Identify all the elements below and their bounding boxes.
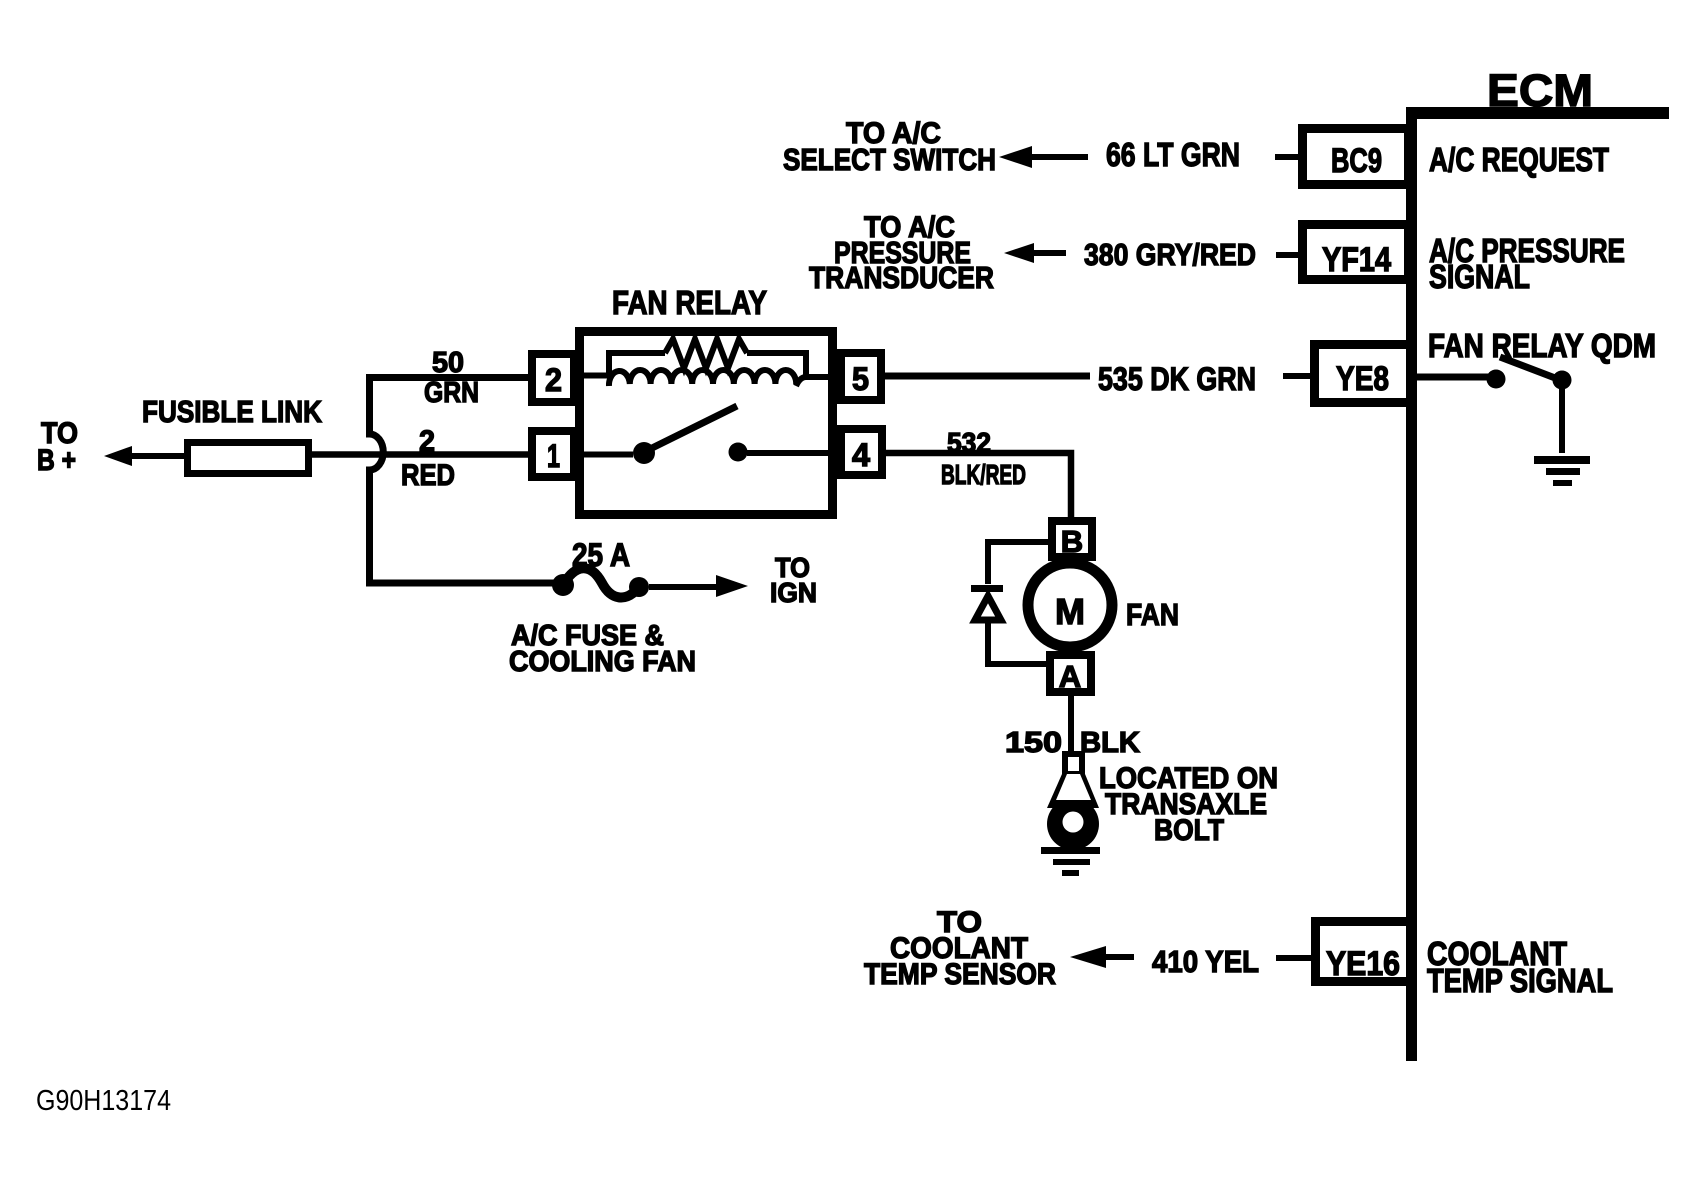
label FAN xyxy=(1126,597,1179,632)
label A/C PRESSURE SIGNAL xyxy=(1429,232,1625,295)
svg-text:YF14: YF14 xyxy=(1322,241,1391,279)
wire label 66 LT GRN xyxy=(1106,136,1240,173)
svg-text:BOLT: BOLT xyxy=(1154,814,1224,847)
label TO B+ xyxy=(37,417,78,477)
connector YE8 xyxy=(1315,345,1411,403)
relay switch wire from pin 1 xyxy=(578,452,633,458)
relay resistor right lead xyxy=(747,353,806,376)
svg-text:TEMP SIGNAL: TEMP SIGNAL xyxy=(1427,962,1613,999)
wire label 2 RED xyxy=(401,425,455,492)
svg-text:FUSIBLE LINK: FUSIBLE LINK xyxy=(142,394,323,429)
svg-text:TEMP SENSOR: TEMP SENSOR xyxy=(864,958,1056,991)
wire label 150 BLK xyxy=(1005,727,1140,759)
svg-text:G90H13174: G90H13174 xyxy=(36,1085,171,1117)
label TO IGN xyxy=(770,552,817,608)
svg-text:COOLING FAN: COOLING FAN xyxy=(509,646,696,678)
label FUSIBLE LINK xyxy=(142,394,323,429)
QDM switch arm xyxy=(1500,357,1563,381)
wire stub into YE8 xyxy=(1283,373,1315,379)
svg-text:IGN: IGN xyxy=(770,577,817,608)
svg-text:FAN: FAN xyxy=(1126,597,1179,632)
svg-text:YE16: YE16 xyxy=(1326,945,1400,983)
relay pin 1 xyxy=(532,431,574,477)
arrow to coolant temp sensor xyxy=(1070,946,1134,968)
ECM label xyxy=(1487,65,1593,116)
svg-text:SELECT SWITCH: SELECT SWITCH xyxy=(783,142,996,177)
svg-text:150: 150 xyxy=(1005,727,1062,759)
svg-text:BC9: BC9 xyxy=(1331,142,1382,180)
arrow to B+ xyxy=(104,446,188,466)
svg-text:A/C REQUEST: A/C REQUEST xyxy=(1429,141,1609,178)
relay resistor (parallel) xyxy=(665,339,747,368)
wire switch to ground xyxy=(1559,381,1565,453)
fan connector A xyxy=(1050,655,1091,694)
wire label 532 BLK/RED xyxy=(941,427,1026,490)
svg-text:50: 50 xyxy=(432,347,464,379)
relay pin 5 xyxy=(841,353,881,400)
svg-text:A: A xyxy=(1059,659,1081,694)
fuse 25A element xyxy=(552,568,649,597)
label TO COOLANT TEMP SENSOR xyxy=(864,906,1056,991)
figure ID G90H13174 xyxy=(36,1085,171,1117)
svg-text:M: M xyxy=(1055,591,1085,632)
svg-text:FAN RELAY: FAN RELAY xyxy=(612,284,767,321)
wire label 380 GRY/RED xyxy=(1084,237,1256,272)
wire label 410 YEL xyxy=(1152,944,1259,979)
svg-text:4: 4 xyxy=(852,437,870,473)
svg-text:TRANSDUCER: TRANSDUCER xyxy=(809,260,994,295)
svg-text:535 DK GRN: 535 DK GRN xyxy=(1098,361,1256,397)
svg-text:2: 2 xyxy=(419,425,435,458)
svg-text:BLK: BLK xyxy=(1080,727,1140,759)
svg-text:BLK/RED: BLK/RED xyxy=(941,459,1026,490)
relay coil wire stub from pin 2 xyxy=(578,353,665,376)
ECM top boundary line xyxy=(1408,107,1669,119)
connector YF14 xyxy=(1303,225,1409,280)
diode xyxy=(971,585,1003,620)
fusible link xyxy=(188,443,309,474)
QDM switch contact dot right xyxy=(1553,371,1572,390)
svg-text:FAN RELAY QDM: FAN RELAY QDM xyxy=(1428,327,1656,364)
relay pin 2 xyxy=(532,354,574,402)
svg-text:410 YEL: 410 YEL xyxy=(1152,944,1259,979)
arrow to A/C pressure transducer xyxy=(1004,243,1066,263)
label FAN RELAY xyxy=(612,284,767,321)
svg-text:1: 1 xyxy=(547,438,560,474)
diode branch top wire xyxy=(988,542,1048,584)
svg-text:B +: B + xyxy=(37,444,76,477)
ECM vertical boundary line xyxy=(1406,107,1417,1061)
wire fusible link to pin1 xyxy=(312,451,532,458)
label LOCATED ON TRANSAXLE BOLT xyxy=(1099,762,1278,847)
label COOLANT TEMP SIGNAL xyxy=(1427,935,1613,999)
relay switch wire to pin 4 xyxy=(747,450,841,456)
svg-text:RED: RED xyxy=(401,459,455,492)
QDM switch contact dot left xyxy=(1487,370,1506,389)
eyelet terminal on transaxle bolt xyxy=(1047,751,1099,850)
wire YE8 to QDM switch xyxy=(1415,374,1496,381)
svg-text:SIGNAL: SIGNAL xyxy=(1429,258,1530,295)
label FAN RELAY QDM xyxy=(1428,327,1656,364)
svg-text:2: 2 xyxy=(545,362,562,398)
wire pin2 to junction with hop over RED wire xyxy=(370,378,557,584)
relay coil xyxy=(609,370,841,386)
fan relay box xyxy=(580,332,833,515)
wire label 535 DK GRN xyxy=(1098,361,1256,397)
connector YE16 xyxy=(1316,922,1411,984)
ground symbol (transaxle bolt) xyxy=(1041,847,1100,876)
fan motor M xyxy=(1028,563,1112,647)
wire label 50 GRN xyxy=(424,347,479,409)
wire fuse to IGN arrow xyxy=(649,575,748,597)
arrow to A/C select switch xyxy=(999,146,1088,168)
wire pin4 to fan connector B xyxy=(881,453,1071,520)
diode branch bottom wire xyxy=(988,621,1048,664)
svg-text:380 GRY/RED: 380 GRY/RED xyxy=(1084,237,1256,272)
svg-text:YE8: YE8 xyxy=(1336,360,1389,398)
svg-text:B: B xyxy=(1061,524,1083,559)
svg-text:66 LT GRN: 66 LT GRN xyxy=(1106,136,1240,173)
relay switch contact dot right xyxy=(729,443,748,462)
fan connector B xyxy=(1052,521,1092,559)
svg-text:5: 5 xyxy=(852,361,869,397)
label A/C FUSE & COOLING FAN xyxy=(509,620,696,678)
wire pin5 toward YE8 xyxy=(881,373,1090,380)
connector BC9 xyxy=(1303,129,1409,185)
wire stub into BC9 xyxy=(1275,154,1303,160)
label A/C REQUEST xyxy=(1429,141,1609,178)
label 25 A xyxy=(572,537,630,573)
label TO A/C PRESSURE TRANSDUCER xyxy=(809,211,994,295)
svg-text:GRN: GRN xyxy=(424,377,479,409)
wire stub into YF14 xyxy=(1276,252,1303,258)
relay switch contact dot left xyxy=(633,442,655,464)
wire fan to ground eyelet xyxy=(1068,696,1074,755)
relay pin 4 xyxy=(841,429,882,475)
ground symbol (QDM) xyxy=(1534,456,1590,486)
wire stub into YE16 xyxy=(1276,955,1316,961)
svg-text:532: 532 xyxy=(947,427,991,458)
svg-text:25 A: 25 A xyxy=(572,537,630,573)
relay switch arm xyxy=(646,406,737,451)
label TO A/C SELECT SWITCH xyxy=(783,117,996,177)
